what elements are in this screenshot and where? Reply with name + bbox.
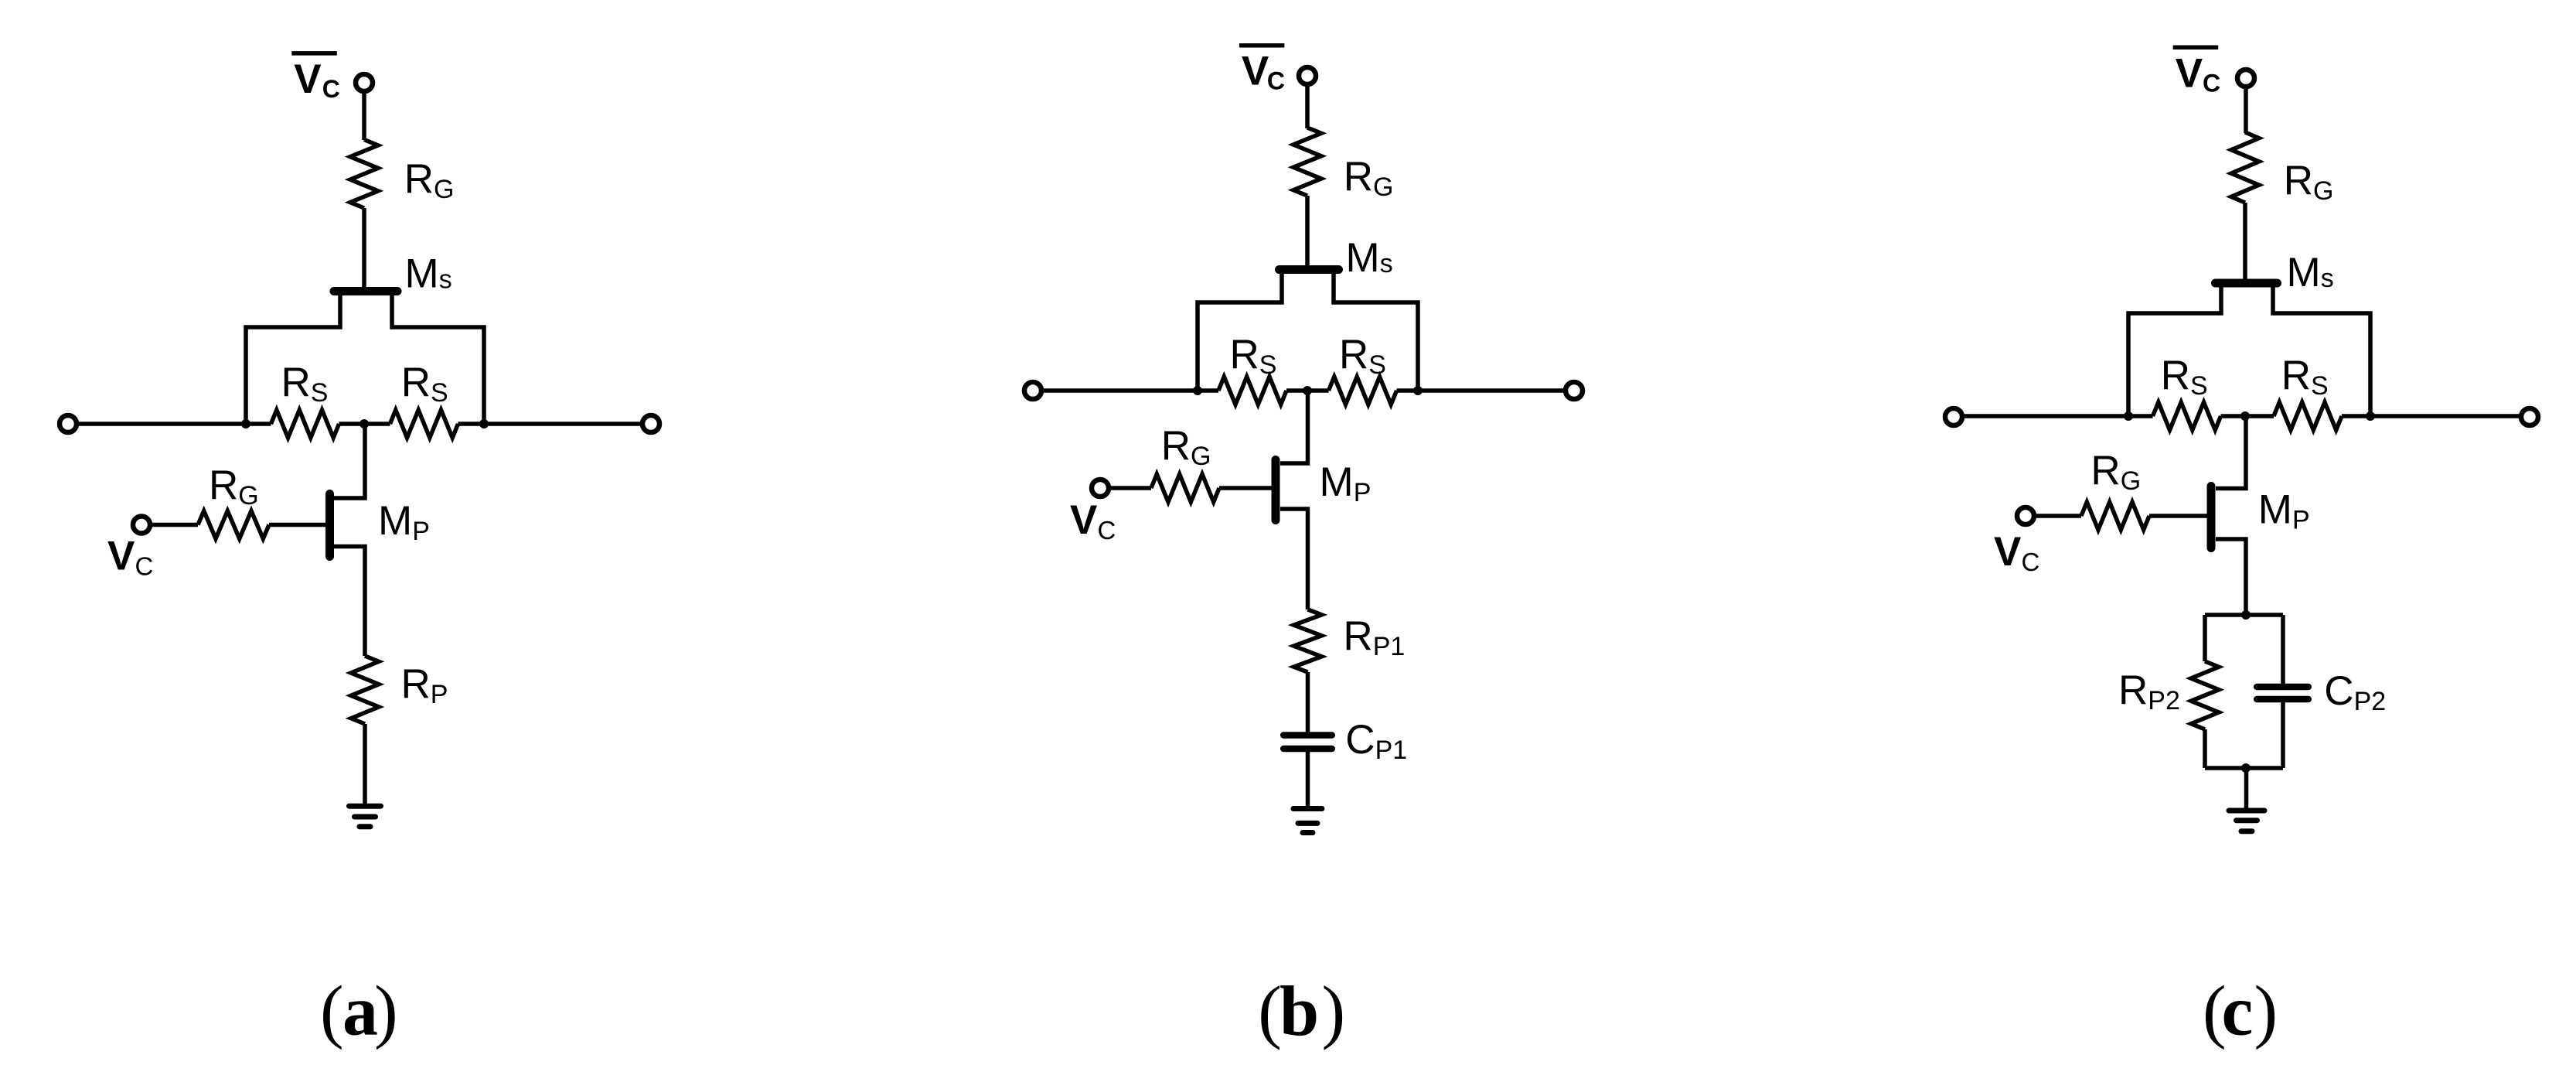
svg-text:P1: P1 bbox=[1375, 736, 1408, 765]
label RG top (b) bbox=[1344, 154, 1394, 202]
svg-text:M: M bbox=[405, 251, 439, 297]
svg-text:S: S bbox=[311, 378, 329, 408]
svg-text:M: M bbox=[1320, 459, 1354, 505]
svg-text:R: R bbox=[2118, 667, 2148, 713]
svg-text:): ) bbox=[2254, 971, 2278, 1050]
terminal output right (b) bbox=[1566, 382, 1583, 399]
wire RS to right terminal (c) bbox=[2342, 414, 2521, 418]
svg-text:V: V bbox=[1070, 497, 1097, 543]
svg-text:G: G bbox=[1191, 442, 1211, 471]
label MP (c) bbox=[2258, 487, 2310, 535]
transistor MP gate bar (a) bbox=[325, 494, 334, 557]
label net VC (b) bbox=[1070, 497, 1116, 545]
wire RG to MP gate (c) bbox=[2149, 514, 2208, 518]
terminal V̄C (b) bbox=[1299, 67, 1316, 84]
label RP2 (c) bbox=[2118, 667, 2180, 715]
transistor MP gate bar (c) bbox=[2207, 486, 2216, 548]
wire RG to MS gate (a) bbox=[362, 208, 366, 288]
label RS right (b) bbox=[1339, 332, 1386, 380]
wire V̄C terminal to RG (a) bbox=[362, 91, 366, 140]
svg-text:M: M bbox=[2258, 487, 2292, 533]
svg-text:G: G bbox=[1373, 172, 1393, 202]
svg-text:P2: P2 bbox=[2354, 687, 2387, 716]
junction node left (b) bbox=[1193, 386, 1202, 395]
svg-text:): ) bbox=[1322, 971, 1346, 1050]
resistor RG top (c) bbox=[2231, 132, 2259, 203]
label net V̄C (a) bbox=[291, 53, 340, 103]
svg-text:C: C bbox=[1345, 717, 1375, 763]
junction node center (a) bbox=[359, 419, 369, 428]
wire center node to MP drain (c) bbox=[2216, 416, 2246, 489]
svg-text:R: R bbox=[1343, 613, 1372, 659]
label CP2 (c) bbox=[2324, 668, 2386, 716]
svg-text:): ) bbox=[374, 971, 398, 1050]
resistor RS left (c) bbox=[2153, 402, 2221, 430]
svg-text:C: C bbox=[2324, 668, 2353, 714]
svg-text:C: C bbox=[1267, 67, 1285, 95]
svg-text:P: P bbox=[1354, 478, 1371, 507]
wire RG to MP gate (b) bbox=[1219, 486, 1273, 490]
resistor RS right (b) bbox=[1329, 377, 1397, 405]
wire parallel top rail (c) bbox=[2205, 613, 2283, 617]
capacitor CP2 bottom plate (c) bbox=[2257, 696, 2309, 703]
svg-text:S: S bbox=[431, 378, 448, 408]
svg-text:V: V bbox=[1994, 529, 2021, 575]
wire MP source to RC network (c) bbox=[2216, 539, 2246, 615]
wire RP2 to bottom rail (c) bbox=[2203, 729, 2207, 768]
label MP (b) bbox=[1320, 459, 1371, 507]
wire MP source to RP (a) bbox=[333, 547, 365, 657]
junction node right (c) bbox=[2366, 411, 2375, 421]
svg-text:(: ( bbox=[1258, 971, 1282, 1050]
capacitor CP1 top plate (b) bbox=[1283, 732, 1332, 739]
svg-text:P: P bbox=[412, 517, 430, 546]
wire left terminal to RS (a) bbox=[77, 422, 271, 426]
junction node left (a) bbox=[241, 419, 250, 428]
terminal input left (a) bbox=[60, 415, 77, 432]
wire top rail to CP2 (c) bbox=[2281, 615, 2285, 685]
svg-text:R: R bbox=[1339, 332, 1368, 377]
resistor RS left (b) bbox=[1218, 377, 1286, 405]
label RG gate (c) bbox=[2090, 448, 2141, 496]
terminal V̄C (c) bbox=[2237, 70, 2254, 87]
wire between RS resistors (b) bbox=[1286, 388, 1329, 393]
wire RS to right terminal (a) bbox=[458, 422, 643, 426]
wire MS drain arm right (a) bbox=[392, 292, 484, 424]
capacitor CP2 top plate (c) bbox=[2257, 684, 2309, 691]
wire RG to MS gate (c) bbox=[2243, 203, 2247, 280]
wire CP2 to bottom rail (c) bbox=[2281, 702, 2285, 768]
transistor MP gate bar (b) bbox=[1272, 460, 1280, 521]
label RG top (c) bbox=[2284, 158, 2334, 206]
wire V̄C terminal to RG (c) bbox=[2244, 87, 2248, 133]
svg-text:M: M bbox=[1346, 235, 1380, 281]
junction node right (a) bbox=[479, 419, 489, 428]
svg-text:s: s bbox=[439, 265, 452, 295]
svg-text:P1: P1 bbox=[1373, 632, 1406, 661]
label MS (a) bbox=[405, 251, 452, 297]
svg-text:R: R bbox=[1230, 332, 1259, 377]
terminal input left (c) bbox=[1945, 408, 1962, 425]
label MS (c) bbox=[2287, 250, 2334, 295]
svg-text:R: R bbox=[401, 360, 431, 405]
label RS left (a) bbox=[281, 360, 329, 408]
terminal VC (a) bbox=[133, 517, 150, 534]
wire left terminal to RS (c) bbox=[1962, 414, 2153, 418]
junction node center (b) bbox=[1303, 386, 1312, 395]
svg-text:(: ( bbox=[320, 971, 344, 1050]
wire RG to MS gate (b) bbox=[1305, 196, 1310, 266]
wire between RS resistors (c) bbox=[2221, 414, 2274, 418]
wire CP1 to ground (b) bbox=[1306, 752, 1310, 807]
svg-text:R: R bbox=[2161, 353, 2190, 398]
resistor RG top (a) bbox=[350, 140, 378, 209]
terminal output right (c) bbox=[2521, 408, 2538, 425]
wire bottom rail to ground (c) bbox=[2244, 768, 2249, 808]
caption (a) bbox=[320, 971, 398, 1050]
caption (c) bbox=[2203, 971, 2278, 1050]
svg-text:V: V bbox=[107, 534, 135, 579]
terminal VC (c) bbox=[2017, 507, 2034, 524]
svg-text:G: G bbox=[434, 175, 454, 204]
label RS right (a) bbox=[401, 360, 448, 408]
svg-text:G: G bbox=[2121, 466, 2141, 496]
resistor RG top (b) bbox=[1293, 128, 1321, 196]
wire V̄C terminal to RG (b) bbox=[1305, 84, 1310, 128]
resistor RP (a) bbox=[351, 656, 379, 724]
wire VC terminal to RG (b) bbox=[1109, 486, 1151, 490]
svg-text:a: a bbox=[342, 971, 378, 1050]
junction node center (c) bbox=[2240, 411, 2250, 421]
junction node left (c) bbox=[2124, 411, 2133, 421]
transistor MS gate bar (c) bbox=[2216, 279, 2278, 288]
resistor RG gate (a) bbox=[198, 511, 269, 539]
svg-text:s: s bbox=[2321, 264, 2334, 293]
wire center node to MP drain (a) bbox=[333, 424, 365, 498]
label CP1 (b) bbox=[1345, 717, 1407, 765]
svg-text:V: V bbox=[1242, 49, 1269, 94]
svg-text:V: V bbox=[294, 56, 321, 102]
svg-text:R: R bbox=[401, 661, 431, 707]
resistor RG gate (c) bbox=[2081, 502, 2149, 530]
svg-text:R: R bbox=[2284, 158, 2313, 203]
wire RP1 to CP1 (b) bbox=[1306, 672, 1310, 732]
transistor MS gate bar (b) bbox=[1279, 265, 1339, 274]
label RG top (a) bbox=[404, 156, 455, 204]
svg-text:C: C bbox=[2022, 548, 2040, 576]
svg-text:C: C bbox=[2203, 69, 2220, 97]
svg-text:R: R bbox=[209, 463, 238, 508]
label RP1 (b) bbox=[1343, 613, 1405, 661]
wire RG to MP gate (a) bbox=[269, 523, 325, 527]
svg-text:s: s bbox=[1380, 249, 1393, 278]
label net V̄C (c) bbox=[2173, 47, 2220, 97]
terminal input left (b) bbox=[1024, 382, 1041, 399]
wire RS to right terminal (b) bbox=[1397, 388, 1566, 393]
ground (c) bbox=[2229, 811, 2264, 831]
svg-text:M: M bbox=[2287, 250, 2321, 295]
resistor RS right (a) bbox=[390, 410, 458, 438]
svg-text:R: R bbox=[2090, 448, 2120, 493]
terminal VC (b) bbox=[1092, 480, 1109, 497]
svg-text:R: R bbox=[404, 156, 434, 202]
transistor MS gate bar (a) bbox=[334, 287, 397, 295]
label RG gate (b) bbox=[1161, 423, 1211, 471]
junction node RC top (c) bbox=[2241, 610, 2251, 620]
caption (b) bbox=[1258, 971, 1345, 1050]
svg-text:P: P bbox=[431, 680, 448, 709]
label net V̄C (b) bbox=[1239, 46, 1285, 95]
svg-text:S: S bbox=[2311, 371, 2329, 401]
wire between RS resistors (a) bbox=[339, 422, 390, 426]
label RG gate (a) bbox=[209, 463, 259, 510]
svg-text:S: S bbox=[2190, 371, 2208, 401]
label MS (b) bbox=[1346, 235, 1393, 281]
svg-text:R: R bbox=[281, 360, 311, 405]
svg-text:C: C bbox=[322, 75, 340, 103]
svg-text:G: G bbox=[238, 481, 258, 510]
wire top rail to RP2 (c) bbox=[2203, 615, 2207, 661]
label RP (a) bbox=[401, 661, 448, 709]
wire MS source arm left (a) bbox=[246, 292, 340, 424]
svg-text:M: M bbox=[378, 498, 412, 544]
wire MS drain arm right (c) bbox=[2273, 283, 2370, 416]
terminal output right (a) bbox=[642, 415, 659, 432]
label RS right (c) bbox=[2281, 353, 2329, 401]
terminal V̄C (a) bbox=[356, 74, 373, 91]
junction node right (b) bbox=[1413, 386, 1423, 395]
label RS left (b) bbox=[1230, 332, 1277, 380]
wire MS source arm left (b) bbox=[1198, 270, 1282, 391]
svg-text:P: P bbox=[2292, 506, 2310, 535]
svg-text:R: R bbox=[1344, 154, 1373, 200]
wire RP to ground (a) bbox=[363, 724, 367, 804]
resistor RS right (c) bbox=[2274, 402, 2342, 430]
junction node RC bottom (c) bbox=[2241, 763, 2251, 773]
wire parallel bottom rail (c) bbox=[2205, 766, 2283, 770]
svg-text:C: C bbox=[135, 552, 154, 581]
svg-text:R: R bbox=[1161, 423, 1191, 469]
svg-text:R: R bbox=[2281, 353, 2311, 398]
resistor RG gate (b) bbox=[1151, 474, 1219, 502]
capacitor CP1 bottom plate (b) bbox=[1283, 746, 1332, 753]
svg-text:c: c bbox=[2222, 971, 2254, 1050]
svg-text:S: S bbox=[1368, 350, 1386, 380]
resistor RP2 (c) bbox=[2191, 661, 2219, 729]
wire MP source to RP1 (b) bbox=[1280, 509, 1308, 609]
wire MS source arm left (c) bbox=[2128, 283, 2221, 416]
resistor RS left (a) bbox=[271, 410, 339, 438]
wire VC terminal to RG (c) bbox=[2034, 514, 2081, 518]
svg-text:V: V bbox=[2176, 50, 2203, 96]
label RS left (c) bbox=[2161, 353, 2208, 401]
label net VC (a) bbox=[107, 534, 153, 581]
svg-text:G: G bbox=[2313, 176, 2333, 206]
ground (b) bbox=[1293, 809, 1322, 833]
svg-text:b: b bbox=[1279, 971, 1319, 1050]
wire center node to MP drain (b) bbox=[1280, 391, 1308, 463]
label MP (a) bbox=[378, 498, 430, 546]
wire MS drain arm right (b) bbox=[1334, 270, 1418, 391]
wire left terminal to RS (b) bbox=[1041, 388, 1218, 393]
ground (a) bbox=[349, 806, 381, 827]
label net VC (c) bbox=[1994, 529, 2039, 576]
svg-text:P2: P2 bbox=[2148, 686, 2180, 715]
svg-text:C: C bbox=[1098, 516, 1116, 545]
wire VC terminal to RG (a) bbox=[150, 523, 198, 527]
resistor RP1 (b) bbox=[1294, 609, 1322, 672]
